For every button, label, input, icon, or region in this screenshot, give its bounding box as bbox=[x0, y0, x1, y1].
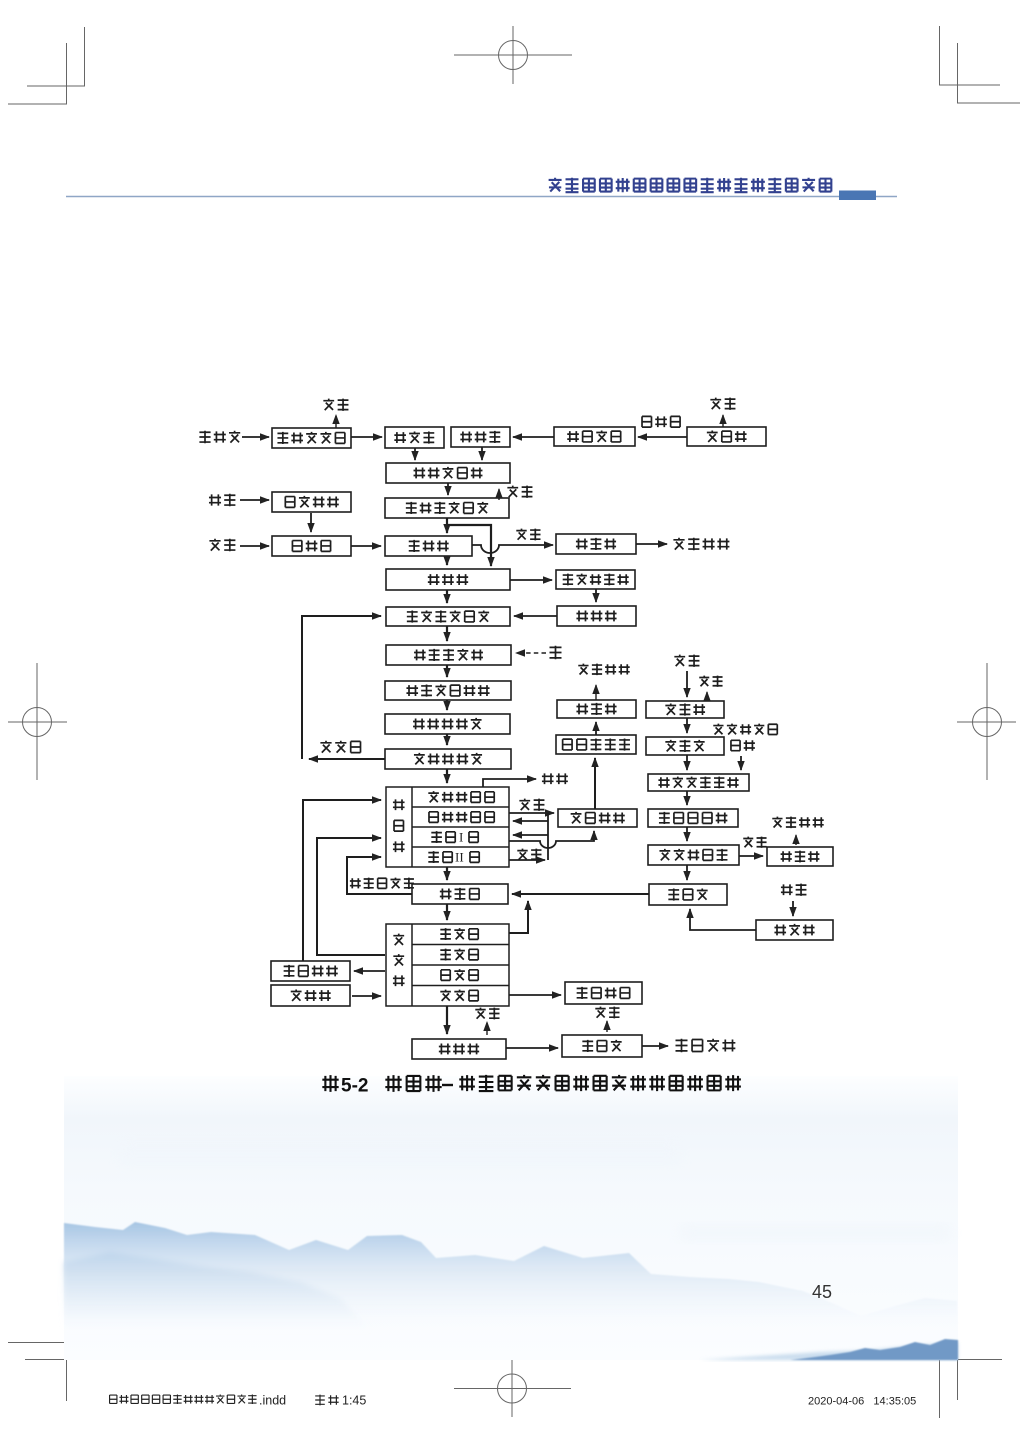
registration target top-center bbox=[454, 26, 572, 84]
box 原料场 bbox=[687, 427, 766, 446]
wire 皮带机3 废气 dashed↑ bbox=[486, 1022, 488, 1035]
wire 空气→助燃风机 bbox=[240, 499, 269, 501]
wire 烘干机↓皮带机 bbox=[446, 556, 448, 565]
watercolor mountain picture bbox=[64, 1076, 958, 1360]
label 燃气 bbox=[209, 539, 235, 552]
label 筛下物 bbox=[320, 741, 360, 753]
wire 水 dashed →圆盘造球机 bbox=[516, 652, 546, 654]
wire 烘干室原料仓↓烘干机 bbox=[446, 518, 448, 533]
box 圆盘造球机 bbox=[386, 645, 511, 665]
wire 袋式收粉器→排气筒 bbox=[739, 855, 763, 857]
box 胶带称 bbox=[451, 427, 510, 447]
label 废气 right column bbox=[743, 837, 766, 848]
wire 热风↓风扫式煤磨机 bbox=[740, 756, 742, 770]
wire 四冷段→煤粉干燥 bbox=[509, 994, 561, 996]
wire 袋式收粉器↓煤粉仓 bbox=[686, 865, 688, 880]
label 空气 bbox=[209, 494, 235, 507]
box 皮带机 2 bbox=[557, 606, 636, 626]
box 烘干机 bbox=[385, 536, 472, 556]
svg-text:1:45: 1:45 bbox=[342, 1394, 366, 1408]
box 皮带机 1 bbox=[386, 569, 510, 590]
wire 风扫式煤磨机↓动态选粉机 bbox=[686, 791, 688, 805]
wire 主抽风机↑静电除尘器 bbox=[594, 758, 596, 809]
label 废气 over 成品仓 bbox=[595, 1007, 619, 1019]
box 原煤仓 bbox=[646, 737, 724, 755]
wire 预热段废气→主抽风机 with hop bbox=[509, 831, 594, 848]
box 主抽风机 bbox=[558, 809, 637, 827]
label 废气排放 bbox=[673, 538, 729, 551]
box 排气筒 mid bbox=[557, 700, 636, 718]
wire 皮带机3→成品仓 bbox=[506, 1047, 558, 1049]
wire 原料场→精粉矿槽 bbox=[638, 436, 687, 438]
svg-text:5-2: 5-2 bbox=[341, 1076, 368, 1097]
registration target right-edge bbox=[957, 663, 1016, 780]
label 膨润土 bbox=[199, 431, 240, 444]
crop mark bottom-left bbox=[8, 1342, 85, 1401]
label 废气 链箅机 upper bbox=[519, 799, 544, 811]
box 排气筒 top bbox=[556, 534, 636, 554]
wire 摆动布料皮带↓上层圆辊筛 bbox=[446, 700, 448, 710]
caption 图5-2 链箅机-回转窑生产工艺流程及排污节点图 bbox=[322, 1075, 741, 1097]
wire 原料场 废气 dashed↑ bbox=[722, 415, 724, 427]
wire 动态选粉机↓袋式收粉器 bbox=[686, 827, 688, 841]
wire 烘干室原料仓 废气↑ bbox=[498, 489, 500, 500]
wire 环冷机→高温风机 bbox=[354, 970, 385, 972]
label 成品输出 bbox=[676, 1039, 736, 1053]
label 原煤 bbox=[674, 655, 699, 667]
wire 回转窑烟气 loop bbox=[347, 857, 412, 894]
wire 成品仓 废气 dashed↑ bbox=[606, 1021, 608, 1032]
wire 回风→预热I段 bbox=[513, 834, 548, 836]
wire 膨润土矿槽 废气 dashed↑ bbox=[335, 415, 337, 428]
svg-text:45: 45 bbox=[812, 1282, 832, 1302]
header rule line bbox=[66, 196, 897, 198]
wire 鼓风机→环冷机 bbox=[352, 995, 381, 997]
wire 膨润土→膨润土矿槽 bbox=[242, 436, 269, 438]
wire 空气↓空压机 bbox=[792, 901, 794, 916]
box 原煤棚 bbox=[646, 701, 724, 718]
wire 回转窑↓一冷段 bbox=[446, 904, 448, 920]
footer left 工业炉窑重点行业帮扶执法手册.indd 章节1:45 bbox=[110, 1394, 367, 1408]
wire 排气筒右 废气外排↑ bbox=[795, 835, 797, 845]
box 下层圆辊筛 bbox=[385, 749, 511, 769]
wire 抽风干燥段→主抽风机 bbox=[509, 812, 554, 814]
label 环冷机四段 bbox=[713, 724, 777, 735]
label 废气 over 原料场 bbox=[710, 398, 735, 410]
crop mark bottom-right bbox=[939, 1342, 1002, 1418]
label 废气外排 right bbox=[772, 817, 823, 829]
compound box 链箅机 bbox=[386, 787, 509, 867]
box 成品仓 bbox=[562, 1035, 642, 1057]
label 废气 at 原煤棚 bbox=[699, 676, 722, 687]
wire 胶带称↓皮带输送机 bbox=[481, 447, 483, 460]
wire 高温风机↑链箅机 鼓风干燥段 bbox=[303, 800, 381, 961]
box 鼓风机 bbox=[271, 985, 350, 1006]
label 废气 right of 烘干室原料仓 bbox=[507, 486, 532, 498]
box 动态选粉机 bbox=[648, 809, 738, 827]
wire 造球室原料仓↓圆盘造球机 bbox=[446, 626, 448, 641]
wire 成品仓→成品输出 bbox=[642, 1045, 668, 1047]
box 袋式收粉器 bbox=[648, 845, 739, 865]
box 排气筒 right bbox=[767, 847, 833, 866]
box 煤粉仓 bbox=[649, 884, 727, 905]
box 高压辊磨机 bbox=[556, 570, 635, 589]
wire 一冷段→回转窑线 bbox=[509, 901, 528, 933]
box 精粉矿槽 bbox=[554, 427, 635, 446]
box 造球室原料仓 bbox=[386, 607, 510, 626]
wire 原煤棚↓原煤仓 bbox=[686, 718, 688, 733]
registration target left-edge bbox=[8, 663, 67, 780]
wire 燃气→热风炉 bbox=[240, 545, 269, 547]
wire 静电除尘器↑排气筒 bbox=[595, 722, 597, 735]
wire 排气筒 mid 废气外排↑ bbox=[595, 685, 597, 700]
box 回转窑 bbox=[412, 884, 508, 904]
wire 链箅机↓回转窑 bbox=[446, 867, 448, 880]
crop mark top-left bbox=[8, 27, 85, 104]
header title 广东省工业炉窑重点行业现场检查指引 bbox=[549, 178, 832, 192]
wire 精粉矿槽→胶带称 bbox=[513, 436, 554, 438]
wire 烘干机→排气筒 with hop bbox=[472, 545, 553, 553]
box 螺旋称 bbox=[385, 427, 444, 448]
wire 鼓风干燥段→外排 bbox=[483, 779, 536, 787]
box 煤粉干燥 bbox=[565, 982, 642, 1004]
box 静电除尘器 bbox=[556, 735, 636, 754]
crop mark top-right bbox=[939, 26, 1020, 103]
wire 主抽风机 vertical x548 bbox=[547, 813, 549, 860]
box 皮带机 3 bbox=[412, 1039, 506, 1059]
wire 预热II段废气→vertical bbox=[509, 859, 545, 861]
wire 热风炉→烘干机 bbox=[351, 545, 381, 547]
compound box 环冷机 bbox=[386, 924, 509, 1006]
wire 排气筒→废气排放 bbox=[636, 543, 667, 545]
box 皮带输送机 bbox=[386, 463, 510, 483]
wire 回风→抽风干燥段 bbox=[513, 820, 548, 822]
label 铁精粉 bbox=[642, 416, 680, 427]
wire 助燃风机↓热风炉 bbox=[310, 513, 312, 532]
label 热风 bbox=[731, 740, 755, 750]
wire 煤粉仓→回转窑 bbox=[512, 893, 649, 895]
box 膨润土矿槽 bbox=[272, 428, 351, 448]
label 废气外排 mid bbox=[578, 664, 629, 676]
wire 原煤棚 废气↑ bbox=[706, 692, 708, 700]
wire 高压辊磨机↓皮带机2 bbox=[595, 589, 597, 602]
label 外排 bbox=[542, 773, 568, 784]
box 摆动布料皮带 bbox=[385, 681, 511, 700]
wire 皮带机2→造球室原料仓 bbox=[514, 615, 557, 617]
wire 螺旋称↓皮带输送机 bbox=[414, 448, 416, 460]
label 废气 over 皮带机3 bbox=[475, 1008, 499, 1020]
header blue rectangle bbox=[839, 191, 876, 201]
svg-text:2020-04-06 14:35:05: 2020-04-06 14:35:05 bbox=[808, 1396, 916, 1408]
svg-text:.indd: .indd bbox=[259, 1394, 286, 1408]
label 废气 over 烘干机排气线 bbox=[516, 529, 540, 541]
wire 膨润土矿槽→螺旋称 bbox=[351, 436, 382, 438]
wire 圆盘造球机↓摆动布料皮带 bbox=[446, 665, 448, 677]
box 助燃风机 bbox=[272, 492, 351, 512]
wire 原煤仓↓风扫式煤磨机 bbox=[686, 755, 688, 770]
box 高温风机 bbox=[271, 961, 350, 981]
svg-text:I: I bbox=[459, 830, 463, 845]
label 废气 over 膨润土矿槽 bbox=[323, 399, 348, 411]
box 空压机 bbox=[756, 920, 833, 940]
box 烘干室原料仓 bbox=[385, 498, 509, 518]
wire 皮带机→高压辊磨机 bbox=[510, 579, 552, 581]
wire 环冷机→链箅机 预热I bbox=[317, 838, 385, 955]
box 热风炉 bbox=[272, 536, 351, 556]
svg-text:II: II bbox=[455, 850, 464, 865]
wire 空压机→煤粉仓 bbox=[690, 909, 756, 930]
label 回转窑烟气 bbox=[350, 878, 414, 889]
wire 下层圆辊筛↓链箅机 bbox=[446, 769, 448, 783]
label 空气 over 空压机 bbox=[781, 884, 807, 896]
wire 烘干室原料仓→皮带机 branch bbox=[447, 525, 491, 566]
wire 原煤↓原煤棚 bbox=[686, 671, 688, 697]
box 上层圆辊筛 bbox=[385, 714, 510, 734]
label 水 bbox=[550, 646, 562, 660]
wire 皮带机↓造球室原料仓 bbox=[446, 590, 448, 603]
registration target bottom-center bbox=[454, 1360, 571, 1417]
wire 筛下物 loop up →造球室原料仓 bbox=[302, 616, 381, 759]
label 废气 链箅机 lower bbox=[517, 849, 541, 861]
box 风扫式煤磨机 bbox=[648, 774, 749, 791]
wire 四冷段↓皮带机3 bbox=[446, 1006, 448, 1034]
wire 皮带输送机↓烘干室原料仓 bbox=[447, 483, 449, 495]
wire 筛下物 left arrow bbox=[309, 758, 385, 760]
wire 上层圆辊筛↓下层圆辊筛 bbox=[446, 734, 448, 745]
